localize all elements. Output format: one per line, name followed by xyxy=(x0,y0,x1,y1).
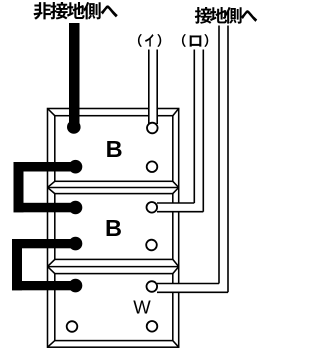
label （イ） xyxy=(138,34,142,47)
terminal cap of hot feed wire xyxy=(67,120,81,134)
screw terminal: bottom module left lower xyxy=(67,321,78,332)
switch box outer frame xyxy=(48,109,179,348)
screw terminal: bottom module right lower xyxy=(147,321,158,332)
black jumper wire C2: switch2 lower-left to bottom module left xyxy=(12,239,76,248)
module 2 inner plate xyxy=(55,194,173,260)
module 3 inner plate xyxy=(55,274,173,341)
module 2 corner bevels xyxy=(48,188,179,267)
terminal cap jumper C2 bottom xyxy=(69,279,83,293)
terminal cap jumper C1 top xyxy=(69,160,83,174)
module 1 corner bevels xyxy=(48,109,179,188)
white wire (ロ) L-shape from label down to switch 2 right terminal xyxy=(157,50,203,212)
screw terminal: bottom module right upper (ground) xyxy=(147,281,158,292)
label 接地側へ (to grounded side) xyxy=(195,7,212,24)
screw terminal: switch 2 right lower xyxy=(146,240,157,251)
label （ロ） xyxy=(182,34,186,47)
label 非接地側へ (to non-grounded side) xyxy=(34,2,51,20)
svg-text:W: W xyxy=(133,297,151,318)
terminal cap jumper C1 bottom xyxy=(69,201,83,215)
black jumper wire C1: switch1 lower-left to switch2 upper-left xyxy=(14,162,76,172)
thick black wire from 非接地側 (hot side) into switch 1 left terminal xyxy=(69,23,80,127)
terminal cap jumper C2 top xyxy=(69,237,83,251)
module 1 inner plate xyxy=(55,116,173,182)
white wire (イ) vertical from label to switch 1 terminal xyxy=(149,50,157,128)
white wire from 接地側 (ground side) L-shape down to bottom module right terminal xyxy=(157,26,228,293)
svg-text:B: B xyxy=(106,136,123,162)
svg-text:B: B xyxy=(105,215,122,241)
divider between module 1 and module 2 xyxy=(48,187,179,189)
screw terminal: switch 2 right upper (ロ) xyxy=(147,202,158,213)
screw terminal: switch 1 right lower xyxy=(147,161,158,172)
divider between module 2 and module 3 xyxy=(48,266,179,268)
screw terminal: switch 1 right upper (イ) xyxy=(147,123,158,134)
module 3 corner bevels xyxy=(48,267,179,348)
